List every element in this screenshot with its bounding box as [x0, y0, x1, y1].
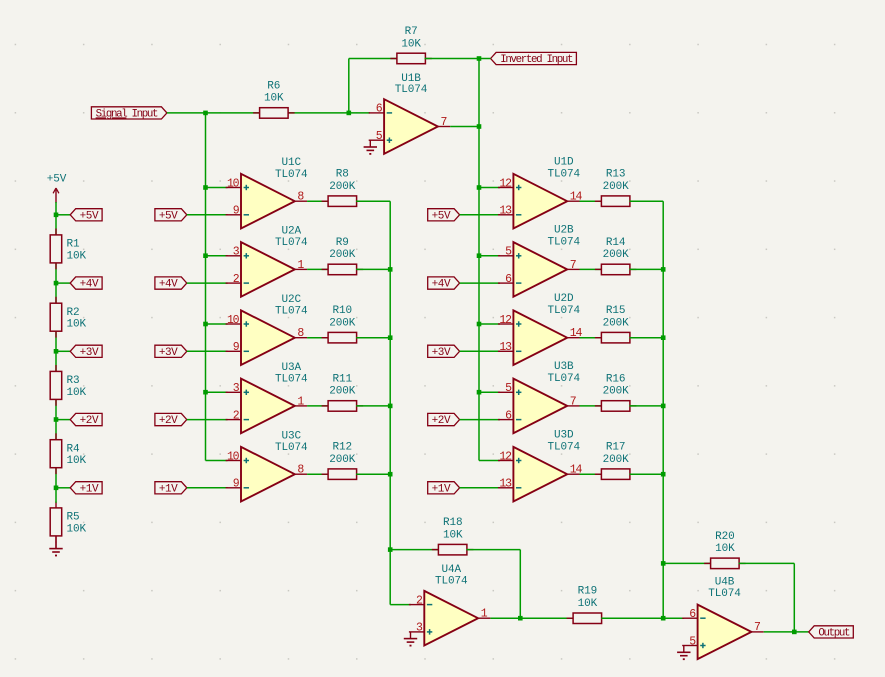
wire right mix bus	[662, 201, 664, 618]
svg-text:R13: R13	[606, 169, 626, 181]
wire rail segment 1	[55, 215, 57, 283]
global label +2V (right col)	[428, 413, 460, 427]
svg-text:U2B: U2B	[554, 225, 574, 237]
wire U3A out	[307, 405, 329, 407]
svg-text:U2A: U2A	[282, 226, 302, 238]
wire rail segment 3	[55, 351, 57, 419]
svg-text:200K: 200K	[603, 386, 630, 398]
svg-text:TL074: TL074	[275, 442, 308, 454]
global label +5V (right col)	[428, 209, 460, 223]
junction left bus tap 4	[388, 472, 393, 477]
svg-text:7: 7	[570, 259, 576, 272]
svg-text:200K: 200K	[329, 454, 356, 466]
wire R19 to bus	[601, 617, 663, 619]
wire U2A out	[307, 268, 329, 270]
svg-text:13: 13	[499, 341, 512, 354]
wire label to U2B-	[460, 282, 500, 284]
svg-text:+1V: +1V	[159, 483, 178, 495]
wire U3C out	[307, 473, 329, 475]
ground (U1B pin5)	[364, 140, 377, 154]
svg-text:10K: 10K	[67, 387, 87, 399]
svg-text:10: 10	[227, 314, 240, 327]
junction inverted tap 4	[477, 390, 482, 395]
svg-text:U4B: U4B	[715, 577, 735, 589]
wire rail to label +4V	[56, 282, 70, 284]
svg-text:TL074: TL074	[435, 575, 468, 587]
svg-text:TL074: TL074	[275, 237, 308, 249]
resistor R9	[322, 237, 364, 275]
svg-text:+5V: +5V	[432, 210, 451, 222]
resistor R11	[322, 373, 364, 411]
svg-text:TL074: TL074	[547, 168, 580, 180]
svg-text:10K: 10K	[715, 543, 735, 555]
svg-text:TL074: TL074	[275, 305, 308, 317]
wire label to U3A-	[187, 419, 228, 421]
wire U1B out	[450, 126, 479, 128]
wire left mix bus	[389, 201, 391, 604]
junction node +2V	[54, 417, 59, 422]
junction node +3V	[54, 349, 59, 354]
svg-text:R14: R14	[606, 237, 626, 249]
ground (U4B pin5)	[677, 646, 690, 660]
junction node U4B- 2	[661, 561, 666, 566]
svg-text:Output: Output	[818, 627, 850, 639]
wire U3D out	[580, 473, 602, 475]
wire label to U2C-	[187, 350, 228, 352]
wire rail segment 4	[55, 420, 57, 488]
wire R20 to out	[739, 562, 795, 564]
svg-text:10K: 10K	[578, 598, 598, 610]
wire U1D out	[580, 200, 602, 202]
wire R9 to bus	[356, 268, 390, 270]
junction node inverted	[477, 56, 482, 61]
resistor R15	[595, 305, 637, 343]
junction right bus tap 3	[661, 404, 666, 409]
wire inverted to U3D+	[479, 460, 500, 462]
junction node U1B in	[347, 111, 352, 116]
svg-text:R6: R6	[267, 80, 280, 92]
svg-text:10K: 10K	[67, 455, 87, 467]
svg-text:10K: 10K	[401, 38, 421, 50]
junction inverted tap 2	[477, 253, 482, 258]
wire label to U1C-	[187, 214, 228, 216]
wire signal to U3A+	[206, 391, 228, 393]
svg-text:+3V: +3V	[432, 347, 451, 359]
junction signal tap 4	[203, 390, 208, 395]
op-amp U4A	[409, 564, 491, 646]
svg-text:TL074: TL074	[275, 374, 308, 386]
wire inverted to U3B+	[479, 391, 500, 393]
wire Signal Input row	[167, 112, 370, 114]
junction node U4B-	[661, 616, 666, 621]
svg-text:200K: 200K	[329, 181, 356, 193]
svg-text:R18: R18	[443, 517, 463, 529]
wire signal to U3C+	[206, 460, 228, 462]
svg-text:R3: R3	[67, 375, 80, 387]
op-amp U3B	[498, 361, 580, 433]
wire bus to U4B pin6	[663, 617, 684, 619]
svg-text:10: 10	[227, 177, 240, 190]
op-amp U1C	[226, 157, 308, 228]
svg-text:U3C: U3C	[282, 430, 302, 442]
svg-text:R19: R19	[578, 586, 598, 598]
resistor R13	[595, 169, 637, 207]
wire R7 row left	[349, 58, 398, 60]
ground (divider)	[49, 542, 62, 556]
junction node U4A-	[388, 547, 393, 552]
svg-text:U2D: U2D	[554, 293, 574, 305]
svg-text:TL074: TL074	[275, 169, 308, 181]
resistor R2	[50, 297, 86, 338]
svg-text:200K: 200K	[329, 249, 356, 261]
wire rail to label +2V	[56, 419, 70, 421]
global label +5V (rail)	[70, 209, 102, 223]
wire signal to U2A+	[206, 255, 228, 257]
global label +3V (left col)	[155, 345, 187, 359]
resistor R12	[322, 442, 364, 480]
svg-text:10: 10	[227, 450, 240, 463]
global label +3V (rail)	[70, 345, 102, 359]
resistor R20	[704, 531, 746, 569]
wire label to U3D-	[460, 487, 500, 489]
global label +2V (left col)	[155, 413, 187, 427]
resistor R16	[595, 373, 637, 411]
op-amp U2D	[498, 293, 583, 365]
svg-text:+1V: +1V	[432, 483, 451, 495]
wire signal to U1C+	[206, 187, 228, 189]
global label +1V (right col)	[428, 482, 460, 496]
resistor R19	[567, 586, 609, 624]
wire U2B out	[580, 268, 602, 270]
resistor R4	[50, 433, 86, 474]
resistor R10	[322, 305, 364, 343]
junction right bus tap 4	[661, 472, 666, 477]
svg-text:R20: R20	[715, 531, 735, 543]
svg-text:+2V: +2V	[432, 415, 451, 427]
global label Output	[809, 626, 854, 640]
wire R14 to bus	[629, 268, 663, 270]
resistor R17	[595, 442, 637, 480]
junction right bus tap 2	[661, 335, 666, 340]
junction right bus tap 1	[661, 267, 666, 272]
svg-text:12: 12	[499, 450, 512, 463]
junction node U4A out	[518, 616, 523, 621]
wire R7 row right	[425, 58, 480, 60]
junction signal tap 3	[203, 322, 208, 327]
global label Signal Input	[91, 107, 166, 121]
svg-text:U4A: U4A	[441, 564, 461, 576]
svg-text:TL074: TL074	[708, 588, 741, 600]
svg-text:TL074: TL074	[547, 441, 580, 453]
svg-text:U3D: U3D	[554, 430, 574, 442]
svg-text:R7: R7	[405, 26, 418, 38]
wire bus to U4A pin2	[390, 604, 411, 606]
resistor R7	[390, 26, 432, 64]
op-amp U1B	[369, 73, 451, 154]
svg-text:+5V: +5V	[80, 210, 99, 222]
junction node output	[792, 630, 797, 635]
svg-text:U3A: U3A	[282, 362, 302, 374]
svg-text:R2: R2	[67, 307, 80, 319]
svg-text:R8: R8	[336, 169, 349, 181]
svg-text:U2C: U2C	[282, 294, 302, 306]
wire label to U2A-	[187, 282, 228, 284]
resistor R6	[253, 80, 295, 118]
svg-text:+5V: +5V	[47, 174, 67, 186]
op-amp U3A	[226, 362, 308, 433]
svg-text:TL074: TL074	[547, 373, 580, 385]
wire R5 to ground	[55, 536, 57, 549]
svg-text:R10: R10	[333, 305, 353, 317]
wire label to U3C-	[187, 487, 228, 489]
svg-text:Inverted Input: Inverted Input	[500, 54, 573, 66]
svg-text:R1: R1	[67, 239, 81, 251]
svg-text:200K: 200K	[603, 454, 630, 466]
resistor R3	[50, 365, 86, 406]
junction inverted tap 1	[477, 185, 482, 190]
svg-text:TL074: TL074	[547, 305, 580, 317]
wire R12 to bus	[356, 473, 390, 475]
svg-text:7: 7	[441, 116, 447, 129]
global label +1V (rail)	[70, 482, 102, 496]
junction node inverted 2	[477, 124, 482, 129]
wire label to U3B-	[460, 419, 500, 421]
power +5V	[47, 174, 67, 204]
resistor R18	[432, 517, 474, 555]
junction node +1V	[54, 486, 59, 491]
wire rail segment 2	[55, 283, 57, 351]
wire U4A out	[490, 617, 573, 619]
global label Inverted Input	[491, 52, 577, 66]
global label +5V (left col)	[155, 209, 187, 223]
resistor R8	[322, 169, 364, 207]
svg-text:7: 7	[570, 395, 576, 408]
svg-text:R5: R5	[67, 512, 80, 524]
junction node +4V	[54, 281, 59, 286]
ground (U4A pin3)	[404, 632, 417, 646]
junction left bus tap 3	[388, 404, 393, 409]
junction left bus tap 1	[388, 267, 393, 272]
global label +3V (right col)	[428, 345, 460, 359]
wire bus to R20	[663, 562, 711, 564]
global label +1V (left col)	[155, 482, 187, 496]
op-amp U2B	[498, 225, 580, 297]
svg-text:13: 13	[499, 478, 512, 491]
svg-text:200K: 200K	[603, 181, 630, 193]
svg-text:+3V: +3V	[159, 347, 178, 359]
svg-text:TL074: TL074	[547, 237, 580, 249]
wire R17 to bus	[629, 473, 663, 475]
junction node +5V	[54, 213, 59, 218]
svg-text:U1C: U1C	[282, 157, 302, 169]
junction signal tap 1	[203, 185, 208, 190]
junction inverted tap 3	[477, 322, 482, 327]
wire U4B out	[764, 631, 809, 633]
wire R15 to bus	[629, 337, 663, 339]
wire feedback up	[348, 59, 350, 113]
svg-text:200K: 200K	[603, 249, 630, 261]
wire inverted to U2B+	[479, 255, 500, 257]
svg-text:13: 13	[499, 205, 512, 218]
svg-text:R17: R17	[606, 442, 626, 454]
wire R16 to bus	[629, 405, 663, 407]
wire R10 to bus	[356, 337, 390, 339]
svg-text:R9: R9	[336, 237, 349, 249]
wire label to U2D-	[460, 350, 500, 352]
svg-text:Signal Input: Signal Input	[96, 108, 158, 120]
wire R18 to out	[466, 549, 520, 551]
op-amp U4B	[682, 577, 764, 660]
junction left bus tap 2	[388, 335, 393, 340]
svg-text:R16: R16	[606, 373, 626, 385]
svg-text:+2V: +2V	[159, 415, 178, 427]
svg-text:10K: 10K	[67, 319, 87, 331]
op-amp U3C	[226, 430, 308, 501]
svg-text:TL074: TL074	[395, 84, 428, 96]
svg-text:10K: 10K	[443, 529, 463, 541]
wire U2D out	[580, 337, 602, 339]
wire U1C out	[307, 200, 329, 202]
wire rail to label +5V	[56, 214, 70, 216]
global label +2V (rail)	[70, 413, 102, 427]
op-amp U2C	[226, 294, 308, 365]
wire U3B out	[580, 405, 602, 407]
svg-text:12: 12	[499, 314, 512, 327]
svg-text:U1B: U1B	[401, 73, 421, 85]
wire rail to R5	[55, 488, 57, 503]
op-amp U1D	[498, 157, 583, 229]
svg-text:R12: R12	[333, 442, 353, 454]
global label +4V (left col)	[155, 277, 187, 291]
wire signal vertical	[205, 113, 207, 461]
wire U2C out	[307, 337, 329, 339]
wire inverted vertical	[478, 59, 480, 461]
svg-text:R4: R4	[67, 443, 81, 455]
wire signal to U2C+	[206, 323, 228, 325]
svg-text:10K: 10K	[67, 523, 87, 535]
wire rail to label +3V	[56, 350, 70, 352]
svg-text:7: 7	[754, 621, 760, 634]
op-amp U2A	[226, 226, 308, 297]
svg-text:200K: 200K	[329, 318, 356, 330]
resistor R1	[50, 229, 86, 270]
svg-text:+3V: +3V	[80, 347, 99, 359]
svg-text:+5V: +5V	[159, 210, 178, 222]
svg-text:200K: 200K	[603, 318, 630, 330]
svg-text:+4V: +4V	[80, 279, 99, 291]
svg-text:+4V: +4V	[159, 279, 178, 291]
wire R11 to bus	[356, 405, 390, 407]
wire label to U1D-	[460, 214, 500, 216]
junction signal tap 2	[203, 253, 208, 258]
svg-text:10K: 10K	[67, 250, 87, 262]
wire rail to label +1V	[56, 487, 70, 489]
global label +4V (right col)	[428, 277, 460, 291]
wire bus to R18	[390, 549, 439, 551]
svg-text:12: 12	[499, 177, 512, 190]
svg-text:R15: R15	[606, 305, 626, 317]
global label +4V (rail)	[70, 277, 102, 291]
op-amp U3D	[498, 430, 583, 502]
wire inverted label	[479, 58, 491, 60]
resistor R14	[595, 237, 637, 275]
wire R8 to bus	[356, 200, 390, 202]
svg-text:+2V: +2V	[80, 415, 99, 427]
svg-text:U1D: U1D	[554, 157, 574, 169]
resistor R5	[50, 502, 86, 543]
svg-text:200K: 200K	[329, 386, 356, 398]
svg-text:+4V: +4V	[432, 279, 451, 291]
svg-text:10K: 10K	[264, 93, 284, 105]
wire inverted to U1D+	[479, 187, 500, 189]
junction node signal	[203, 111, 208, 116]
svg-text:+1V: +1V	[80, 483, 99, 495]
svg-text:U3B: U3B	[554, 361, 574, 373]
svg-text:R11: R11	[333, 373, 353, 385]
wire inverted to U2D+	[479, 323, 500, 325]
wire rail top	[55, 202, 57, 215]
wire R13 to bus	[629, 200, 663, 202]
